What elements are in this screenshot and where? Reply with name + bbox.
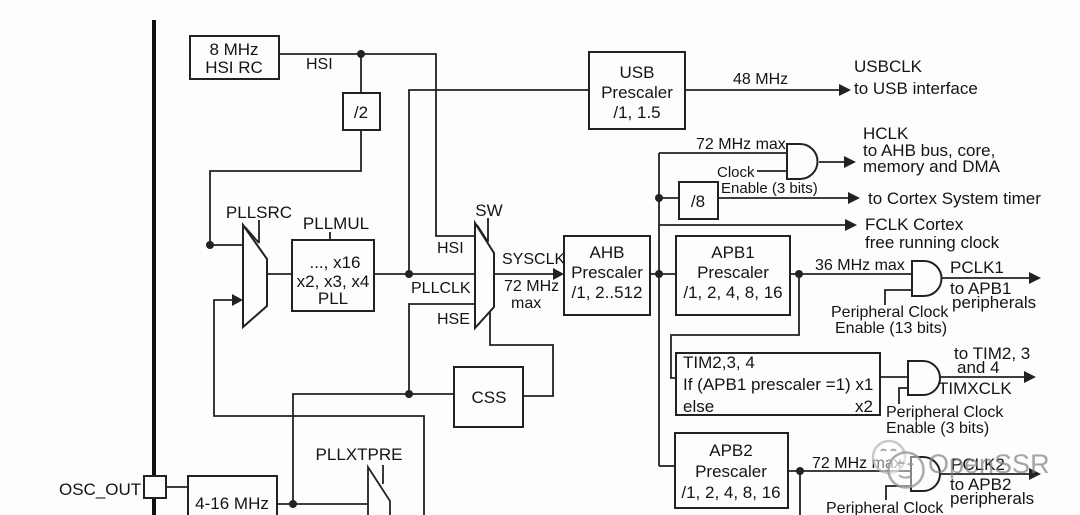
wire HSI: oscillator output to SW mux [279,54,475,236]
svg-text:/2: /2 [354,103,368,122]
wire TIMX enable [899,388,908,404]
wire PCLK2 enable [886,486,911,500]
svg-text:HSI: HSI [306,56,333,73]
svg-text:4-16 MHz: 4-16 MHz [195,494,269,513]
oscillator HSI RC box [190,36,279,79]
mux PLLSRC selector diagonal [245,227,259,243]
gate HCLK clock-enable AND [787,144,818,179]
gate PCLK2 clock-enable AND [911,457,940,491]
wire HCLK vertical bus [658,153,660,466]
svg-text:..., x16: ..., x16 [309,253,360,272]
svg-text:FCLK Cortex: FCLK Cortex [865,215,964,234]
apb1 APB1 Prescaler box [676,236,790,315]
watermark face features [881,450,913,478]
svg-text:TIM2,3, 4: TIM2,3, 4 [683,353,755,372]
divider /8 box [679,182,718,219]
svg-text:Peripheral Clock: Peripheral Clock [831,304,949,321]
arrow TIMXCLK [1024,371,1036,383]
wire PLLSRC mux output to PLL [267,273,292,275]
node HSE/CSS junction [405,390,413,398]
svg-text:memory and DMA: memory and DMA [863,157,1001,176]
wire HSE from oscillator to PLLXTPRE [277,503,367,505]
arrow PCLK2 [1029,468,1041,480]
wire HSI/2 to PLLSRC mux input 1 [210,130,361,245]
svg-text:72 MHz max: 72 MHz max [696,136,786,153]
apb2 APB2 Prescaler box [675,433,788,508]
ahb AHB Prescaler box [564,236,650,315]
svg-text:HSE: HSE [437,311,470,328]
svg-text:Prescaler: Prescaler [695,462,767,481]
wire CSS to SW mux corner [490,312,553,396]
wire PCLK2 output [940,473,1029,475]
svg-text:PLLMUL: PLLMUL [303,214,369,233]
svg-text:peripherals: peripherals [952,293,1036,312]
wire PCLK2 branch down [799,471,801,515]
wire /8 output to Cortex timer [718,197,848,199]
svg-text:Clock: Clock [717,164,755,181]
mux PLLSRC body [243,225,267,327]
wire HCLK gate output [819,161,845,163]
svg-text:x2: x2 [855,397,873,416]
svg-text:PCLK1: PCLK1 [950,258,1004,277]
wire PCLK1 output [941,277,1029,279]
node HSI junction [357,50,365,58]
node PLLCLK junction [405,270,413,278]
svg-text:HSI RC: HSI RC [205,58,263,77]
wire OSC_OUT to oscillator [166,486,188,488]
arrow PCLK1 [1029,272,1041,284]
mux SW label pointer [487,218,489,242]
gate TIMXCLK clock-enable AND [908,361,940,395]
svg-text:else: else [683,397,714,416]
svg-text:/1, 2, 4, 8, 16: /1, 2, 4, 8, 16 [681,483,780,502]
svg-text:APB1: APB1 [711,243,754,262]
svg-text:TIMXCLK: TIMXCLK [938,379,1012,398]
svg-text:Enable (3 bits): Enable (3 bits) [886,420,989,437]
svg-text:to USB interface: to USB interface [854,79,978,98]
node PCLK1 junction [795,270,803,278]
wire HSE up to CSS line [293,394,454,504]
mux PLLSRC label pointer [258,220,260,243]
wire HSI branch down to /2 divider [360,54,362,93]
svg-text:36 MHz max: 36 MHz max [815,257,905,274]
svg-text:/8: /8 [691,192,705,211]
wire FCLK [659,224,845,226]
wire into /8 [659,197,679,199]
svg-text:and 4: and 4 [957,358,1000,377]
node PCLK2 junction [796,467,804,475]
wire APB2 output to gate [788,470,911,472]
svg-text:Prescaler: Prescaler [571,263,643,282]
wire PCLK1 enable [885,290,912,305]
svg-text:SW: SW [475,201,502,220]
tim TIM2,3,4 multiplier box [676,353,880,415]
wire PLLCLK: PLL output to SW mux [374,273,475,275]
svg-text:Enable (3 bits): Enable (3 bits) [721,180,818,197]
css CSS box [454,367,523,427]
svg-text:max: max [511,295,541,312]
wire APB1 output to gate [790,273,912,275]
svg-text:APB2: APB2 [709,441,752,460]
wire PLLCLK up to USB prescaler [409,90,589,274]
usb USB Prescaler box [589,52,685,129]
wire TIMXCLK output [940,376,1024,378]
gate PCLK1 clock-enable AND [912,261,942,296]
watermark logo circle lower [889,453,924,488]
wire HCLK bus into APB2 prescaler [659,465,675,467]
node PLLSRC input junction [206,241,214,249]
svg-text:USBCLK: USBCLK [854,57,923,76]
wire HSE up to SW mux input [409,304,475,394]
svg-text:USB: USB [620,63,655,82]
svg-text:/1, 1.5: /1, 1.5 [613,103,660,122]
svg-text:peripherals: peripherals [950,489,1034,508]
arrow Cortex system timer [848,192,860,204]
wire PLLXTPRE output feedback into PLLSRC input 2 [214,300,424,515]
oscillator HSE 4-16 MHz box [188,476,277,515]
svg-text:48 MHz: 48 MHz [733,71,788,88]
svg-text:SYSCLK: SYSCLK [502,251,565,268]
svg-text:to Cortex System timer: to Cortex System timer [868,189,1041,208]
arrow HCLK [844,156,856,168]
arrow SYSCLK into AHB prescaler [553,268,564,280]
svg-text:Prescaler: Prescaler [697,263,769,282]
svg-text:PLLXTPRE: PLLXTPRE [316,445,403,464]
node /8 tap [655,194,663,202]
svg-text:8 MHz: 8 MHz [209,40,258,59]
pad OSC_OUT square [144,476,166,498]
wire SYSCLK: SW mux output to AHB prescaler [494,273,553,275]
svg-text:/1, 2, 4, 8, 16: /1, 2, 4, 8, 16 [683,283,782,302]
divider /2 box [343,93,380,130]
watermark logo circle upper [873,441,905,473]
svg-text:OSC_OUT: OSC_OUT [59,480,141,499]
svg-text:If (APB1 prescaler =1) x1: If (APB1 prescaler =1) x1 [683,375,873,394]
wire HCLK to AND gate [659,152,787,154]
svg-text:Peripheral Clock: Peripheral Clock [826,500,944,515]
svg-text:AHB: AHB [590,243,625,262]
pll PLL box [292,240,374,311]
wire PCLK1 branch to TIM multiplier [671,274,799,378]
wire AHB output to APB1 prescaler [650,273,676,275]
svg-text:CSS: CSS [472,388,507,407]
svg-text:free running clock: free running clock [865,233,1000,252]
MCU boundary thick line [152,20,156,515]
mux SW selector diagonal [477,225,488,242]
mux SW body [475,223,494,328]
arrow into PLLSRC input 2 [232,294,243,306]
arrow USBCLK [839,84,851,96]
svg-text:Peripheral Clock: Peripheral Clock [886,404,1004,421]
node HCLK junction [655,270,663,278]
PLLMUL label pointer [329,232,331,240]
mux PLLXTPRE label pointer [382,465,384,484]
wire TIM output to gate [880,376,908,378]
svg-text:/1, 2..512: /1, 2..512 [572,283,643,302]
svg-text:Enable (13 bits): Enable (13 bits) [835,320,947,337]
svg-text:PLLCLK: PLLCLK [411,280,471,297]
svg-text:OpenSSR: OpenSSR [928,449,1050,479]
svg-text:72 MHz: 72 MHz [504,278,559,295]
svg-text:PLLSRC: PLLSRC [226,203,292,222]
svg-text:Prescaler: Prescaler [601,83,673,102]
node HSE junction at oscillator output [289,500,297,508]
svg-text:PLL: PLL [318,289,348,308]
wire USBCLK output [685,89,840,91]
arrow FCLK [845,219,857,231]
mux PLLXTPRE body [368,467,390,515]
svg-text:HSI: HSI [437,240,464,257]
